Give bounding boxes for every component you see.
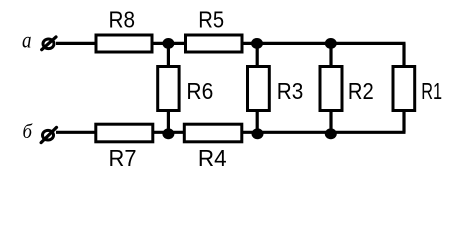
junction bottom node R6: [162, 128, 174, 139]
resistor R8: [96, 7, 152, 53]
svg-text:R3: R3: [277, 78, 304, 104]
junction bottom node R2: [325, 128, 337, 139]
svg-text:R7: R7: [109, 145, 137, 168]
wire R6 branch vertical: [167, 43, 170, 132]
resistor R7: [96, 124, 153, 171]
wire right vertical (R1 branch): [402, 43, 405, 132]
wire R3 branch vertical: [256, 43, 259, 132]
resistor R6: [158, 67, 214, 111]
junction top node R6: [162, 38, 174, 49]
svg-text:R1: R1: [421, 78, 442, 104]
resistor R5: [186, 7, 243, 53]
junction top node R3: [251, 38, 263, 49]
svg-text:a: a: [22, 28, 32, 53]
svg-text:R6: R6: [186, 78, 213, 104]
svg-text:R4: R4: [198, 145, 227, 168]
terminal a circle: [42, 37, 56, 50]
resistor R4: [184, 124, 242, 171]
junction bottom node R3: [252, 128, 264, 139]
resistor R3: [248, 67, 304, 111]
svg-text:R2: R2: [348, 78, 374, 104]
wire R2 branch vertical: [329, 43, 332, 132]
wire top horizontal (node a rail): [56, 42, 406, 45]
svg-text:R5: R5: [198, 7, 224, 33]
resistor R2: [320, 67, 374, 111]
junction top node R2: [325, 38, 337, 49]
svg-text:б: б: [23, 121, 33, 143]
wire bottom horizontal (node b rail): [56, 131, 406, 134]
resistor R1: [393, 67, 442, 111]
terminal b circle: [41, 127, 56, 142]
svg-text:R8: R8: [109, 7, 136, 33]
